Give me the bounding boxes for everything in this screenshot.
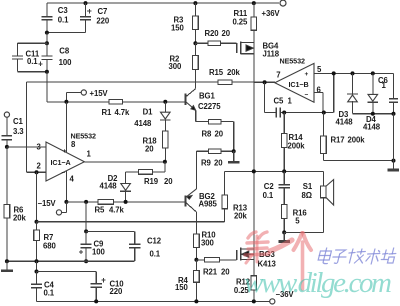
watermark blue char zi [331,250,347,263]
svg-text:680: 680 [43,242,56,251]
terminal +15V [64,89,108,104]
wire feedback down [26,82,28,172]
node input [5,145,9,149]
resistor R12 [234,260,257,302]
svg-text:100: 100 [59,58,72,67]
wire speaker return [284,231,323,233]
watermark blue char shu [365,249,381,264]
node R16 bottom [282,230,286,234]
resistor R16 [281,204,307,232]
resistor R13 [222,171,248,221]
resistor R15 [209,68,275,84]
svg-text:20k: 20k [227,68,240,77]
resistor R1 [102,100,131,118]
capacitor C8 [38,43,72,73]
transistor BG1 C2275 [186,89,222,111]
svg-text:+36V: +36V [262,9,281,18]
svg-text:0.1: 0.1 [263,191,274,200]
watermark blue char dian [317,248,332,264]
speaker S1 [302,171,334,205]
ground left [6,261,8,270]
svg-text:R20: R20 [205,29,220,38]
wire diode rail [353,113,394,115]
svg-text:A985: A985 [199,200,218,209]
transistor BG3 K413 [237,248,277,269]
wire IC1-A pin3 [7,146,46,148]
capacitor C10 [91,272,125,302]
svg-text:200k: 200k [288,142,306,151]
svg-text:J118: J118 [263,50,280,59]
capacitor C2 [263,171,290,204]
capacitor C1 [2,117,25,147]
diode D4 [363,71,381,131]
node R3-R2 [193,41,197,45]
capacitor C7 [80,1,110,32]
svg-text:0.1: 0.1 [27,57,38,66]
node R10-R4 [194,258,198,262]
svg-text:R21: R21 [203,268,218,277]
resistor R8 [202,119,234,151]
svg-text:20k: 20k [13,214,26,223]
resistor R5 [95,200,125,215]
svg-text:0.1: 0.1 [150,249,161,258]
wire +15V feed [47,101,186,103]
svg-text:220: 220 [96,17,109,26]
terminal input [4,112,9,136]
wire R17 to ground [323,160,393,162]
svg-text:C1: C1 [13,117,24,126]
svg-text:0.1: 0.1 [58,16,69,25]
wire pin2 column [36,172,38,222]
transistor BG4 J118 [237,41,280,58]
diode D3 [336,71,358,126]
wire BG2 collector [195,212,197,234]
node IC1-B output [263,80,267,84]
terminal -36V [270,290,295,304]
op-amp IC1-A [37,132,96,184]
terminal -15V [38,199,67,215]
svg-text:BG1: BG1 [199,92,215,101]
wire ground rail [7,260,135,262]
svg-text:150: 150 [175,283,188,292]
svg-text:R1: R1 [102,108,113,117]
svg-text:C3: C3 [58,6,69,15]
ground bottom mid [283,232,285,240]
wire BG3 drain to rail [253,171,255,248]
svg-text:R15: R15 [209,68,224,77]
wire C3-C7 join [47,32,86,34]
svg-text:4148: 4148 [363,123,381,132]
capacitor C9 [79,202,106,263]
svg-text:C2: C2 [264,182,275,191]
wire C12 link [86,230,135,232]
resistor R19 [126,170,174,186]
svg-text:0.1: 0.1 [44,289,55,298]
resistor R14 [281,113,305,172]
svg-text:4148: 4148 [100,182,118,191]
svg-text:C7: C7 [98,7,108,16]
ground mid [233,151,235,161]
resistor R10 [194,231,217,260]
svg-text:20: 20 [145,144,154,153]
svg-text:4148: 4148 [134,119,152,128]
svg-text:+: + [305,71,309,78]
watermark red char di [245,232,269,263]
svg-text:5: 5 [295,217,300,226]
svg-text:300: 300 [169,62,182,71]
wire C5 to pin6 node [284,112,334,114]
svg-text:4148: 4148 [336,118,354,127]
wire -36V rail [37,300,270,302]
svg-text:R5: R5 [95,206,106,215]
svg-text:20: 20 [215,130,224,139]
svg-text:7: 7 [276,71,280,80]
resistor R7 [34,222,57,261]
wire BG1 emitter to R8 [195,110,197,121]
svg-text:−15V: −15V [38,199,57,208]
diode D1 [134,102,170,131]
svg-text:200k: 200k [348,136,366,145]
watermark red char yi [270,240,292,251]
wire output rail [225,170,324,172]
node D2 bottom [124,200,128,204]
svg-text:0.25: 0.25 [233,18,249,27]
resistor R21 [196,258,236,277]
node C9 top [84,200,88,204]
wire IC1-A output [84,161,164,163]
resistor R9 [196,149,233,167]
capacitor C5 [265,82,293,117]
svg-text:8Ω: 8Ω [302,191,312,200]
svg-text:100: 100 [92,248,105,257]
wire C8 to +15V node [46,72,48,102]
svg-text:IC1−A: IC1−A [51,158,71,167]
svg-text:IC1−B: IC1−B [289,80,309,89]
resistor R3 [171,1,198,43]
capacitor C11 [12,43,47,71]
resistor R11 [233,1,257,42]
capacitor C12 [129,231,162,261]
svg-text:+15V: +15V [90,89,109,98]
capacitor C3 [41,3,69,32]
svg-text:150: 150 [171,23,184,32]
wire R15 feedback rail [27,81,218,83]
wire IC1-A pin8 [65,102,67,152]
svg-text:C8: C8 [59,46,70,55]
svg-text:3.3: 3.3 [13,127,24,136]
svg-text:4.7k: 4.7k [115,108,131,117]
wire pin4 [65,171,67,202]
resistor R2 [169,43,199,88]
wire pin5 link [333,73,335,112]
resistor R4 [175,260,199,302]
wire R19 branch [164,162,166,172]
ground right [393,161,395,170]
svg-text:D1: D1 [143,108,154,117]
wire IC1-B pin6 [314,92,323,94]
terminal +36V [262,0,287,18]
watermark blue char zhan [380,248,397,263]
wire IC1-B pin5 [314,72,394,74]
op-amp IC1-B [275,57,322,103]
resistor R18 [143,131,169,162]
svg-text:C5: C5 [274,97,285,106]
svg-text:R19: R19 [144,177,159,186]
node D1 top [163,100,167,104]
svg-text:−: − [305,92,309,99]
svg-text:20: 20 [164,177,173,186]
svg-text:220: 220 [110,287,123,296]
svg-text:20: 20 [221,268,230,277]
wire BG4 source to output rail [253,54,255,172]
svg-text:−: − [62,170,66,177]
svg-text:4.7k: 4.7k [109,206,125,215]
watermark red char ge [294,233,312,289]
resistor R17 [321,113,366,161]
wire feedback lower rail [37,221,225,223]
node R8-R9 junction [232,149,236,153]
watermark blue char ji [346,249,365,263]
svg-text:20k: 20k [234,212,247,221]
wire +36V top rail [47,2,279,4]
svg-text:R8: R8 [202,130,213,139]
svg-text:300: 300 [201,238,214,247]
node pin2 [35,170,39,174]
svg-text:R17: R17 [331,136,345,145]
capacitor C4 [31,272,55,302]
svg-text:C2275: C2275 [198,102,221,111]
svg-text:20: 20 [214,158,223,167]
node C8 top [46,33,48,44]
resistor R6 [4,147,26,261]
node C4 top [36,261,38,271]
wire BG2 emitter to R9 [195,151,197,189]
diode D2 [100,172,132,202]
transistor BG2 A985 [186,189,218,212]
svg-text:20: 20 [222,29,231,38]
svg-text:C12: C12 [147,237,162,246]
wire C10 link [37,271,97,273]
resistor R20 [195,29,236,46]
wire -15V feed [66,201,185,203]
svg-text:NE5532: NE5532 [280,57,305,66]
svg-text:www.dilge.com: www.dilge.com [244,267,392,299]
svg-text:R9: R9 [201,158,212,167]
capacitor C6 [378,73,398,113]
svg-text:S1: S1 [303,182,313,191]
